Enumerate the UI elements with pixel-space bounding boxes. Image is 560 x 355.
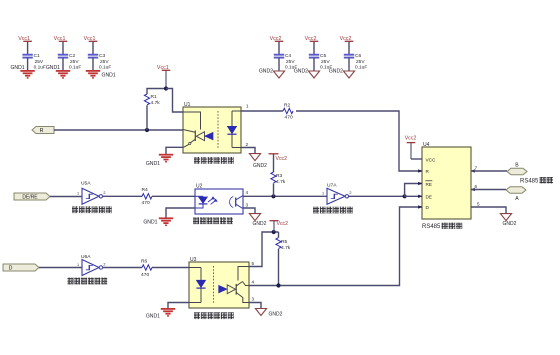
wire junction to RE pin — [405, 184, 422, 197]
svg-text:GND1: GND1 — [146, 161, 160, 167]
svg-text:4.7k: 4.7k — [151, 100, 161, 106]
svg-text:7: 7 — [475, 166, 478, 171]
wire Vcc1 node to U1 pin — [166, 89, 183, 113]
svg-text:25V: 25V — [100, 59, 109, 65]
svg-text:GND2: GND2 — [259, 69, 273, 75]
ground GND2 of C5 — [294, 69, 320, 79]
wire R3 to Vcc2 — [273, 154, 275, 172]
U3 LED — [189, 268, 206, 303]
label U3 high-speed optocoupler — [194, 312, 200, 319]
svg-text:0.1uF: 0.1uF — [99, 65, 111, 71]
svg-text:U5A: U5A — [81, 181, 91, 187]
capacitor C4 0.1uF 25V — [274, 53, 298, 71]
label U5A schmitt buffer — [72, 206, 78, 213]
svg-text:1: 1 — [246, 104, 249, 109]
svg-text:25V: 25V — [356, 59, 365, 65]
svg-text:C6: C6 — [355, 53, 361, 59]
svg-text:2: 2 — [349, 191, 351, 195]
power Vcc2 for C6 — [340, 36, 354, 42]
svg-text:U2: U2 — [196, 184, 203, 190]
U4 pin RE — [418, 181, 432, 187]
svg-text:25V: 25V — [70, 59, 79, 65]
svg-text:R4: R4 — [142, 187, 149, 193]
svg-text:GND1: GND1 — [146, 314, 160, 320]
wire Vcc1 to C2 — [62, 41, 64, 54]
svg-text:4: 4 — [252, 280, 255, 285]
svg-text:3: 3 — [252, 297, 255, 302]
ground GND1 of C3 — [86, 71, 116, 79]
svg-text:2: 2 — [246, 142, 249, 147]
wire R1 top to Vcc1 node — [147, 89, 166, 95]
svg-text:DE/RE: DE/RE — [22, 195, 38, 201]
label U2 low-speed optocoupler — [193, 217, 199, 224]
label U6A schmitt buffer — [68, 278, 74, 285]
svg-text:GND2: GND2 — [253, 221, 267, 227]
wire Vcc1 to C3 — [92, 41, 94, 54]
ground GND1 of U3 — [146, 309, 175, 320]
wire U4 pin5 to GND2 — [471, 207, 506, 213]
svg-text:GND2: GND2 — [294, 69, 308, 75]
buffer U5A — [77, 181, 106, 205]
port DE/RE — [14, 193, 50, 201]
ground GND2 of C6 — [329, 69, 355, 79]
wire U1 pin1 to R2 — [241, 110, 283, 112]
svg-text:0.1uF: 0.1uF — [69, 65, 81, 71]
svg-text:1: 1 — [77, 263, 79, 267]
wire C3 to ground — [92, 58, 94, 71]
wire Vcc2 to C4 — [278, 41, 280, 54]
svg-text:Vcc2: Vcc2 — [405, 135, 417, 141]
port R — [32, 127, 54, 135]
port D — [3, 264, 39, 271]
svg-text:B: B — [515, 163, 519, 169]
ground GND2 of U3 — [255, 309, 282, 318]
buffer U7A — [322, 183, 352, 205]
svg-text:C4: C4 — [285, 53, 291, 59]
U3 phototransistor — [219, 267, 249, 303]
wire C6 to ground — [348, 58, 350, 71]
power Vcc2 at R3 — [269, 154, 288, 162]
port A — [506, 187, 526, 202]
capacitor C3 0.1uF 25V — [88, 53, 112, 71]
svg-text:GND2: GND2 — [269, 311, 283, 317]
svg-text:3: 3 — [246, 202, 249, 207]
power Vcc2 for C5 — [305, 36, 319, 42]
svg-text:GND1: GND1 — [46, 65, 60, 71]
junction node Vcc1/U1 — [164, 86, 168, 90]
ground GND1 of U2 — [143, 218, 173, 225]
svg-text:C3: C3 — [99, 53, 105, 59]
svg-text:U4: U4 — [423, 142, 430, 148]
wire D port to U6A — [39, 267, 82, 269]
wire DE/RE port to U5A — [50, 196, 82, 198]
ground GND2 of U1 — [249, 154, 267, 169]
optocoupler U1 — [183, 102, 241, 153]
wire C5 to ground — [313, 58, 315, 71]
optocoupler U3 — [189, 257, 249, 308]
svg-text:DE: DE — [426, 194, 433, 199]
svg-text:D: D — [9, 265, 13, 271]
wire R2 to U4 R pin — [296, 111, 422, 171]
svg-text:A: A — [515, 196, 519, 202]
svg-text:5: 5 — [252, 261, 255, 266]
svg-text:C2: C2 — [69, 53, 75, 59]
junction node DE/RE tie — [403, 194, 407, 198]
U2 light arrows — [208, 197, 217, 205]
svg-text:R5: R5 — [281, 239, 288, 245]
svg-text:C5: C5 — [320, 53, 326, 59]
power Vcc2 at R5 — [270, 221, 289, 232]
U4 pin 7 — [471, 166, 478, 173]
U2 LED — [195, 196, 207, 208]
svg-text:2: 2 — [103, 191, 105, 195]
svg-text:U6A: U6A — [81, 254, 91, 260]
junction node R3/row2 — [271, 194, 275, 198]
svg-text:470: 470 — [141, 272, 149, 278]
wire U2 cathode to GND1 — [166, 208, 195, 218]
svg-text:GND1: GND1 — [102, 73, 116, 79]
wire U3 pin5 to Vcc2 node — [249, 232, 279, 267]
svg-text:GND2: GND2 — [253, 163, 267, 169]
wire U7A to DE junction — [349, 195, 405, 197]
svg-text:4.7k: 4.7k — [281, 245, 291, 251]
wire Vcc2 to C5 — [313, 41, 315, 54]
svg-text:2: 2 — [103, 262, 105, 266]
power Vcc2 for C4 — [270, 36, 284, 42]
svg-text:25V: 25V — [35, 59, 44, 65]
U1 isolation barrier — [217, 111, 219, 149]
wire R5 to pin4 wire — [278, 249, 280, 286]
svg-text:U1: U1 — [184, 102, 191, 108]
wire U3 pin4 to U4 D pin — [249, 207, 422, 286]
label U7A schmitt trigger — [313, 207, 319, 214]
ground GND2 of U2 — [249, 214, 266, 227]
power Vcc1 at R1 — [157, 65, 170, 89]
wire Vcc2 to U4 VCC pin — [411, 158, 422, 160]
svg-text:RE: RE — [426, 182, 433, 187]
svg-text:0.1uF: 0.1uF — [34, 65, 46, 71]
U2 phototransistor — [230, 196, 243, 209]
svg-text:GND2: GND2 — [329, 69, 343, 75]
ground GND2 of C4 — [259, 69, 285, 79]
label RS485 bus — [520, 177, 553, 185]
resistor R3 4.7k — [271, 172, 286, 185]
svg-text:1: 1 — [77, 192, 79, 196]
capacitor C2 0.1uF 25V — [58, 53, 82, 71]
capacitor C1 0.1uF 25V — [22, 53, 46, 71]
buffer U6A — [77, 254, 106, 276]
svg-text:R1: R1 — [151, 94, 158, 100]
U4 pin D — [418, 205, 429, 210]
wire Vcc2 to C6 — [348, 41, 350, 54]
wire U2 pin4 to U7A — [243, 195, 327, 197]
capacitor C5 0.1uF 25V — [309, 53, 333, 71]
junction node Vcc2/R5 — [272, 230, 276, 234]
label U4 RS485 transceiver — [422, 223, 462, 231]
label U1 high-speed optocoupler — [194, 157, 200, 164]
resistor R1 4.7k — [144, 94, 160, 106]
wire U3 cathode to GND1 — [168, 303, 189, 309]
power Vcc2 at U4 — [405, 135, 417, 159]
wire U1 pin2 to GND2 — [241, 148, 255, 154]
power Vcc1 for C2 — [54, 36, 68, 42]
svg-text:GND2: GND2 — [503, 221, 517, 227]
resistor R5 4.7k — [276, 238, 291, 252]
U4 pin R — [418, 169, 429, 174]
svg-text:GND1: GND1 — [10, 65, 24, 71]
ground GND1 of C2 — [46, 65, 70, 78]
svg-text:U3: U3 — [190, 257, 197, 263]
wire R1 bottom — [146, 105, 148, 130]
svg-text:VCC: VCC — [426, 157, 437, 162]
wire U3 pin3 to GND2 — [249, 303, 261, 309]
wire U2 pin3 to GND2 — [243, 208, 255, 213]
svg-text:C1: C1 — [34, 53, 40, 59]
ground GND1 of C1 — [10, 65, 34, 78]
junction node R5/pin4 — [276, 283, 280, 287]
wire Vcc2 node to R5 — [278, 232, 280, 238]
capacitor C6 0.1uF 25V — [344, 53, 368, 71]
U4 pin 6 — [471, 184, 478, 191]
svg-text:0.1uF: 0.1uF — [355, 65, 367, 71]
power Vcc1 for C1 — [18, 36, 32, 42]
svg-text:R3: R3 — [276, 173, 283, 179]
wire C4 to ground — [278, 58, 280, 71]
wire C2 to ground — [62, 58, 64, 71]
svg-text:470: 470 — [285, 115, 293, 121]
wire U1 emitter to GND1 — [166, 147, 183, 154]
U1 phototransistor — [183, 112, 213, 147]
svg-text:Vcc2: Vcc2 — [276, 156, 288, 162]
wire R port to U1 — [54, 129, 183, 131]
wire U4 pin7 to B — [471, 170, 507, 172]
svg-text:RS485: RS485 — [520, 179, 539, 185]
wire U6A to R6 — [103, 267, 142, 269]
resistor R2 470 — [283, 102, 293, 120]
wire U5A to R4 — [103, 195, 142, 197]
svg-text:6: 6 — [475, 184, 478, 189]
junction node R/R1 — [145, 128, 149, 132]
ground GND2 of U4 — [500, 214, 516, 227]
wire R6 to U3 — [152, 267, 189, 269]
svg-text:RS485: RS485 — [422, 224, 441, 230]
svg-text:25V: 25V — [286, 59, 295, 65]
svg-text:Vcc2: Vcc2 — [277, 221, 289, 227]
wire Vcc1 to C1 — [27, 41, 29, 54]
wire C1 to ground — [27, 58, 29, 71]
U1 photodiode — [227, 111, 241, 148]
wire U4 pin6 to A — [471, 189, 506, 191]
U3 isolation barrier — [213, 266, 215, 304]
svg-text:1: 1 — [322, 192, 324, 196]
svg-text:4: 4 — [246, 190, 249, 195]
svg-text:R2: R2 — [284, 102, 291, 108]
svg-text:470: 470 — [142, 200, 150, 206]
svg-text:GND1: GND1 — [143, 220, 157, 226]
wire R4 to U2 — [152, 195, 195, 197]
ground GND1 of U1 — [146, 155, 173, 167]
port B — [507, 163, 527, 175]
resistor R6 470 — [141, 258, 152, 278]
svg-text:5: 5 — [477, 201, 480, 206]
svg-text:25V: 25V — [321, 59, 330, 65]
svg-text:R6: R6 — [141, 258, 148, 264]
resistor R4 470 — [142, 187, 153, 206]
optocoupler U2 — [195, 184, 243, 214]
IC U4 RS485 transceiver body — [422, 142, 471, 219]
svg-text:R: R — [40, 128, 44, 134]
svg-text:U7A: U7A — [327, 183, 337, 189]
U4 pin DE — [418, 194, 432, 199]
wire junction to DE pin — [405, 195, 422, 197]
power Vcc1 for C3 — [84, 36, 98, 42]
svg-text:4.7k: 4.7k — [276, 179, 286, 185]
